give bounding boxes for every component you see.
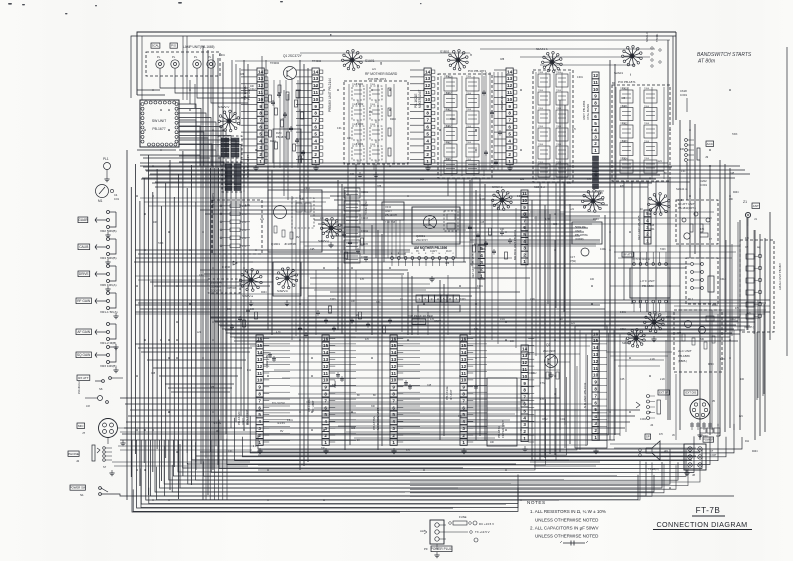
svg-text:UNLESS OTHERWISE NOTED: UNLESS OTHERWISE NOTED xyxy=(535,534,599,539)
wire long mid runs xyxy=(140,165,740,167)
svg-text:68: 68 xyxy=(357,395,360,397)
rotary switch S1A41-b xyxy=(541,52,562,73)
svg-text:6: 6 xyxy=(258,405,261,410)
svg-text:S6: S6 xyxy=(99,387,103,391)
svg-text:tap: tap xyxy=(757,246,761,249)
svg-text:14: 14 xyxy=(522,346,528,351)
svg-text:2: 2 xyxy=(324,433,327,438)
svg-text:PB-1633E: PB-1633E xyxy=(445,386,449,400)
coil row 3 xyxy=(352,126,364,140)
svg-text:h: h xyxy=(470,53,472,57)
svg-text:8: 8 xyxy=(594,100,597,105)
svg-text:11: 11 xyxy=(593,366,598,371)
svg-text:0.01: 0.01 xyxy=(560,418,565,421)
svg-text:VR1-1 5K(A): VR1-1 5K(A) xyxy=(100,310,118,314)
svg-text:C612: C612 xyxy=(531,373,537,375)
svg-text:2: 2 xyxy=(392,433,395,438)
svg-text:T204: T204 xyxy=(466,109,472,111)
svg-text:G: G xyxy=(432,253,434,255)
svg-text:4.7K: 4.7K xyxy=(242,246,247,248)
potentiometer VR6 10K(A) (DRIVE) xyxy=(78,271,90,277)
svg-text:2SC372Y: 2SC372Y xyxy=(416,238,428,242)
svg-text:JF10538: JF10538 xyxy=(284,242,296,246)
svg-text:TX +13.5 V: TX +13.5 V xyxy=(475,530,490,534)
svg-text:11: 11 xyxy=(313,90,318,95)
PA transistor xyxy=(581,248,589,256)
rotary switch S4WV-V xyxy=(218,110,240,132)
wire bus (left vertical bundle) xyxy=(126,150,128,500)
svg-text:4: 4 xyxy=(258,419,261,424)
svg-text:MR BCD UNIT PB-1874: MR BCD UNIT PB-1874 xyxy=(513,230,517,260)
svg-text:1K: 1K xyxy=(400,298,403,301)
svg-text:1: 1 xyxy=(594,435,597,440)
small caps between strips xyxy=(269,352,271,358)
svg-text:TP2001: TP2001 xyxy=(656,33,659,42)
svg-text:4: 4 xyxy=(508,138,511,143)
page edge line right xyxy=(786,47,788,356)
svg-text:14: 14 xyxy=(313,69,319,74)
svg-text:M1: M1 xyxy=(98,199,103,203)
svg-text:10: 10 xyxy=(391,378,397,383)
more mid horizontals short xyxy=(340,225,470,227)
svg-text:2SK19GR-2: 2SK19GR-2 xyxy=(78,380,81,394)
svg-text:J8: J8 xyxy=(692,473,695,477)
svg-text:330: 330 xyxy=(371,406,376,408)
svg-text:10K: 10K xyxy=(500,228,505,231)
small legend symbol xyxy=(563,542,585,544)
svg-text:10K: 10K xyxy=(347,138,352,140)
svg-text:8: 8 xyxy=(523,212,526,217)
svg-text:AT 80m: AT 80m xyxy=(697,59,715,65)
CW peak filter unit PB-1882 xyxy=(416,295,422,302)
stubs right of bottom strips xyxy=(263,338,269,340)
svg-text:T204: T204 xyxy=(370,84,376,86)
svg-text:100: 100 xyxy=(350,173,355,176)
svg-text:0.001: 0.001 xyxy=(700,183,707,187)
POWER connector P8 xyxy=(703,437,714,442)
svg-text:3-8: 3-8 xyxy=(86,404,90,408)
svg-text:1: 1 xyxy=(392,440,395,445)
svg-text:9: 9 xyxy=(523,381,526,386)
svg-text:5: 5 xyxy=(392,412,395,417)
pin row under AM mother xyxy=(391,257,394,260)
svg-text:T204: T204 xyxy=(444,109,450,111)
svg-text:MOD/DEM UNIT: MOD/DEM UNIT xyxy=(376,408,380,430)
svg-text:T204: T204 xyxy=(466,93,472,95)
dashed option box xyxy=(218,136,242,158)
svg-text:4.7K: 4.7K xyxy=(242,222,247,224)
svg-text:10K: 10K xyxy=(153,222,158,224)
svg-text:C612: C612 xyxy=(620,328,626,331)
svg-text:C45: C45 xyxy=(730,173,735,175)
verticals frame to SW unit xyxy=(141,36,143,100)
svg-text:P/O PB-1871: P/O PB-1871 xyxy=(368,77,387,81)
connector MIXER UNIT PB-1621E xyxy=(424,68,431,165)
svg-text:10: 10 xyxy=(593,87,599,92)
svg-text:0.001: 0.001 xyxy=(304,188,310,190)
svg-text:47K: 47K xyxy=(365,339,370,341)
svg-text:X1902: X1902 xyxy=(361,204,369,207)
svg-text:MIC: MIC xyxy=(78,424,84,428)
POWER PLUG boxed label xyxy=(431,546,453,552)
svg-text:T204: T204 xyxy=(352,104,358,106)
svg-text:5: 5 xyxy=(462,412,465,417)
svg-text:CONNECTION DIAGRAM: CONNECTION DIAGRAM xyxy=(656,520,747,529)
svg-text:T204: T204 xyxy=(620,158,626,160)
svg-text:S4WV-a: S4WV-a xyxy=(242,294,253,298)
svg-text:J1: J1 xyxy=(754,217,757,221)
svg-text:5: 5 xyxy=(258,412,261,417)
svg-text:PHONE: PHONE xyxy=(68,452,79,456)
svg-text:X1905: X1905 xyxy=(361,243,369,246)
svg-text:5: 5 xyxy=(324,412,327,417)
coil row 2 xyxy=(352,106,364,120)
svg-text:VR1-2 M(B): VR1-2 M(B) xyxy=(100,341,116,345)
svg-text:UNLESS OTHERWISE NOTED: UNLESS OTHERWISE NOTED xyxy=(535,518,599,523)
pilot lamp PL1 xyxy=(104,163,111,170)
diode D1746 xyxy=(233,261,237,265)
svg-text:ALC UNIT: ALC UNIT xyxy=(678,349,692,353)
svg-text:4: 4 xyxy=(480,253,483,258)
svg-text:P9: P9 xyxy=(424,547,428,551)
svg-text:T204: T204 xyxy=(444,142,450,144)
svg-text:RF GAIN: RF GAIN xyxy=(77,299,91,303)
svg-text:0.047: 0.047 xyxy=(710,454,717,457)
B3000 row xyxy=(700,428,706,433)
rotary switch S4WV-b in box xyxy=(273,262,301,296)
speaker SP xyxy=(645,434,651,439)
svg-text:1K: 1K xyxy=(230,328,233,331)
potentiometer VR2 50K(B) (GUAR) xyxy=(78,217,88,223)
svg-text:0.01: 0.01 xyxy=(500,318,505,321)
svg-text:2: 2 xyxy=(594,428,597,433)
svg-text:47K: 47K xyxy=(599,193,604,195)
svg-text:12: 12 xyxy=(323,364,329,369)
svg-text:RF ATT: RF ATT xyxy=(623,252,632,256)
svg-text:RVO: RVO xyxy=(276,131,282,135)
grounds under strips and parts xyxy=(253,165,258,171)
svg-text:DET UNIT PB-1875: DET UNIT PB-1875 xyxy=(471,253,475,278)
svg-text:C?: C? xyxy=(709,238,713,241)
horizontal band y300-340 xyxy=(135,299,770,301)
svg-text:XTAL BANK: XTAL BANK xyxy=(586,104,590,120)
wire mesh from lamp unit down xyxy=(160,76,248,88)
svg-text:4.7K: 4.7K xyxy=(242,230,247,232)
wire staircase bottom-left xyxy=(132,440,400,512)
svg-text:H: H xyxy=(439,253,441,255)
svg-text:1: 1 xyxy=(418,298,420,302)
svg-text:X1904: X1904 xyxy=(361,230,369,233)
svg-text:T204: T204 xyxy=(556,144,562,146)
svg-text:f: f xyxy=(630,73,631,77)
svg-text:1: 1 xyxy=(462,440,465,445)
svg-text:PB-1878A: PB-1878A xyxy=(372,416,376,430)
svg-text:7.48-7.98: 7.48-7.98 xyxy=(385,221,396,224)
svg-text:C88: C88 xyxy=(351,428,356,430)
svg-text:R204: R204 xyxy=(708,364,714,366)
svg-text:REGISTER UNIT: REGISTER UNIT xyxy=(246,155,250,178)
svg-text:6: 6 xyxy=(594,114,597,119)
svg-text:1K: 1K xyxy=(560,318,563,321)
svg-text:TX +B(V): TX +B(V) xyxy=(648,467,659,471)
svg-text:2.2K: 2.2K xyxy=(660,378,665,381)
nested corner wires center-bottom xyxy=(258,410,535,470)
svg-text:FILTER UNIT: FILTER UNIT xyxy=(501,420,505,438)
svg-text:4: 4 xyxy=(324,419,327,424)
svg-text:T203: T203 xyxy=(450,118,456,121)
svg-text:9: 9 xyxy=(426,104,429,109)
svg-text:13: 13 xyxy=(425,76,431,81)
svg-text:1: 1 xyxy=(258,440,261,445)
svg-text:12: 12 xyxy=(522,360,528,365)
strip PB-1874 right edge of center xyxy=(521,190,528,265)
svg-text:3: 3 xyxy=(314,145,317,150)
svg-text:RX ATT: RX ATT xyxy=(78,376,88,380)
connector AF UNIT PB-1646C xyxy=(322,335,329,445)
svg-text:PL1: PL1 xyxy=(103,157,109,161)
svg-text:7: 7 xyxy=(455,298,457,302)
svg-text:4.7K: 4.7K xyxy=(245,205,250,207)
svg-text:8V: 8V xyxy=(416,250,419,253)
crystal column left xyxy=(533,70,573,182)
rotary switch S2B01 xyxy=(581,190,604,213)
svg-text:330: 330 xyxy=(700,338,705,341)
connector MOD/DEM UNIT PB-1878A xyxy=(390,335,397,445)
svg-text:J2: J2 xyxy=(76,459,80,463)
svg-text:1: 1 xyxy=(480,273,483,278)
svg-text:470: 470 xyxy=(745,238,750,240)
svg-text:NOTES: NOTES xyxy=(527,500,546,505)
rotary switch S2B41 xyxy=(626,328,645,347)
svg-text:1. ALL RESISTORS IN Ω, ¼ W ±: 1. ALL RESISTORS IN Ω, ¼ W ± 10% xyxy=(530,509,606,514)
connector P/O PB-1874 xyxy=(506,68,513,165)
svg-text:(NB05-): (NB05-) xyxy=(678,359,687,363)
svg-text:47K: 47K xyxy=(458,416,463,418)
svg-text:5: 5 xyxy=(523,232,526,237)
svg-text:L21: L21 xyxy=(520,178,525,181)
svg-text:SP: SP xyxy=(646,435,650,439)
svg-text:7: 7 xyxy=(594,107,597,112)
svg-text:T204: T204 xyxy=(466,126,472,128)
PHONE jack J2 xyxy=(68,451,79,456)
svg-text:T204: T204 xyxy=(556,90,562,92)
svg-text:S1: S1 xyxy=(80,493,84,497)
svg-text:C45: C45 xyxy=(716,436,721,438)
power plug P9 xyxy=(430,520,444,544)
svg-text:47K: 47K xyxy=(620,186,625,188)
svg-text:2. ALL CAPACITORS IN µF 50WV: 2. ALL CAPACITORS IN µF 50WV xyxy=(530,526,599,531)
svg-text:C612: C612 xyxy=(542,419,548,421)
svg-text:T204: T204 xyxy=(370,124,376,126)
svg-text:47K: 47K xyxy=(430,318,435,321)
svg-text:11: 11 xyxy=(323,371,328,376)
potentiometer VR1-2 M(B) (AF GAIN) xyxy=(76,329,91,335)
svg-text:15: 15 xyxy=(391,343,397,348)
svg-text:3: 3 xyxy=(480,260,483,265)
svg-text:1K: 1K xyxy=(315,86,318,88)
diagonal-ish jogs upper area xyxy=(179,120,196,166)
middle pockets fill xyxy=(348,240,352,246)
svg-text:0.01: 0.01 xyxy=(253,446,258,448)
wire power run xyxy=(102,494,735,496)
svg-text:9V: 9V xyxy=(216,429,220,433)
svg-text:S4WV-V: S4WV-V xyxy=(218,105,229,109)
rotary switch S1B01-h xyxy=(447,50,468,71)
svg-text:T204: T204 xyxy=(538,144,544,146)
svg-text:R204: R204 xyxy=(261,292,267,294)
svg-text:C45: C45 xyxy=(678,200,683,202)
svg-text:L21: L21 xyxy=(372,69,377,71)
svg-text:4Ω: 4Ω xyxy=(664,449,669,453)
svg-text:AF GAIN: AF GAIN xyxy=(77,330,90,334)
svg-text:T204: T204 xyxy=(466,159,472,161)
svg-text:T204: T204 xyxy=(644,88,650,90)
extra dense verticals xyxy=(291,196,293,340)
svg-text:11: 11 xyxy=(461,371,466,376)
svg-text:PL: PL xyxy=(208,55,212,59)
switch contacts right of S2A01 xyxy=(651,47,653,49)
terminal strip J6 xyxy=(647,395,650,398)
svg-text:7: 7 xyxy=(314,118,317,123)
connector RES CONT UNIT PB-1622C xyxy=(256,335,263,445)
svg-text:C45: C45 xyxy=(151,373,156,375)
svg-text:330: 330 xyxy=(369,112,374,114)
svg-text:BANDSWITCH STARTS: BANDSWITCH STARTS xyxy=(697,52,752,58)
svg-text:C612: C612 xyxy=(720,278,726,281)
svg-text:RL1: RL1 xyxy=(688,297,694,301)
LPF unit PB-1880 xyxy=(630,268,670,298)
svg-text:7: 7 xyxy=(258,398,261,403)
coil row 4 xyxy=(352,146,364,160)
svg-text:0.01: 0.01 xyxy=(228,451,233,453)
svg-text:PL/N: PL/N xyxy=(446,250,452,253)
svg-text:3: 3 xyxy=(594,134,597,139)
right side verticals from ACC/ANT xyxy=(686,162,688,200)
svg-text:C612: C612 xyxy=(730,318,736,321)
svg-text:T204: T204 xyxy=(556,126,562,128)
svg-text:14: 14 xyxy=(257,350,263,355)
svg-text:4: 4 xyxy=(594,414,597,419)
horizontal band y160-190 xyxy=(140,162,668,164)
svg-text:LAMP UNIT(PB-1665): LAMP UNIT(PB-1665) xyxy=(183,45,214,49)
svg-text:11: 11 xyxy=(425,90,430,95)
svg-text:4.7K: 4.7K xyxy=(242,238,247,240)
rotary switch S2A41-m xyxy=(647,193,670,216)
svg-text:9: 9 xyxy=(324,385,327,390)
svg-text:13: 13 xyxy=(391,357,397,362)
svg-text:5: 5 xyxy=(314,131,317,136)
svg-text:10: 10 xyxy=(313,97,319,102)
svg-text:2.2K: 2.2K xyxy=(480,198,485,201)
svg-text:T204: T204 xyxy=(644,123,650,125)
svg-text:R11: R11 xyxy=(745,441,750,443)
connector FIX UNIT PB-1626C xyxy=(257,68,264,165)
svg-text:7: 7 xyxy=(462,398,465,403)
svg-text:5: 5 xyxy=(426,131,429,136)
svg-text:T204: T204 xyxy=(444,126,450,128)
svg-text:T204: T204 xyxy=(556,162,562,164)
svg-text:13: 13 xyxy=(507,76,513,81)
svg-text:2: 2 xyxy=(258,433,261,438)
RX ATT xyxy=(77,375,90,380)
svg-text:R204: R204 xyxy=(733,192,739,194)
resistors in Q1901 box xyxy=(274,226,277,233)
svg-text:S2A01-C: S2A01-C xyxy=(646,32,649,42)
svg-text:C45: C45 xyxy=(427,385,432,387)
svg-text:POWER: POWER xyxy=(703,438,714,442)
VFO unit PB-1402B xyxy=(382,202,404,220)
svg-text:8: 8 xyxy=(426,111,429,116)
svg-text:S4WV-g: S4WV-g xyxy=(318,239,329,243)
AM ALC tails xyxy=(756,332,758,400)
svg-text:3: 3 xyxy=(594,421,597,426)
svg-text:L21: L21 xyxy=(739,416,744,418)
svg-text:3: 3 xyxy=(258,426,261,431)
resistor network near Q1 xyxy=(278,85,281,93)
svg-text:1K: 1K xyxy=(640,208,643,211)
svg-text:9V: 9V xyxy=(280,429,284,433)
svg-text:14: 14 xyxy=(507,69,513,74)
verticals dropping from top arrays to mid xyxy=(347,164,349,196)
svg-text:8: 8 xyxy=(508,111,511,116)
svg-text:PB-1677: PB-1677 xyxy=(152,127,165,131)
svg-text:C4: C4 xyxy=(114,193,118,197)
svg-text:UNIT: UNIT xyxy=(241,418,245,425)
svg-text:5: 5 xyxy=(443,298,445,302)
svg-text:15: 15 xyxy=(257,343,263,348)
svg-text:7: 7 xyxy=(392,398,395,403)
svg-text:3: 3 xyxy=(462,426,465,431)
svg-text:T204: T204 xyxy=(620,106,626,108)
svg-text:10K: 10K xyxy=(680,148,685,151)
svg-text:2.2K: 2.2K xyxy=(650,358,655,361)
svg-text:10: 10 xyxy=(323,378,329,383)
svg-text:L21: L21 xyxy=(420,178,425,181)
svg-text:10: 10 xyxy=(522,198,528,203)
svg-text:/13.5V: /13.5V xyxy=(277,421,285,425)
SW unit PB-1677 xyxy=(140,100,179,147)
rotary switch S1A01-g xyxy=(341,50,362,71)
svg-text:L21: L21 xyxy=(260,218,265,221)
svg-text:4: 4 xyxy=(314,138,317,143)
svg-text:T204: T204 xyxy=(352,84,358,86)
svg-text:6: 6 xyxy=(508,125,511,130)
rotary switch S2C01 xyxy=(643,312,664,333)
top band horizontals y48-68 xyxy=(480,48,655,50)
svg-text:100: 100 xyxy=(740,378,745,381)
wires mixer strip left xyxy=(410,69,424,71)
wires strip P/O PB-1874 left xyxy=(494,69,506,71)
connector PREMIX UNIT PB-2144 xyxy=(312,68,319,165)
svg-text:T204: T204 xyxy=(644,106,650,108)
svg-text:C45: C45 xyxy=(310,248,315,251)
svg-text:T204: T204 xyxy=(466,76,472,78)
svg-text:11: 11 xyxy=(391,371,396,376)
RVO PB-1871 box xyxy=(273,129,301,163)
svg-text:7: 7 xyxy=(508,118,511,123)
svg-text:POWER PLUG: POWER PLUG xyxy=(431,547,453,551)
svg-text:470: 470 xyxy=(572,129,577,131)
right mid verticals x720-760 xyxy=(725,240,727,332)
coil row 1 xyxy=(352,86,364,100)
svg-text:TONE OSC: TONE OSC xyxy=(364,200,368,215)
svg-text:11: 11 xyxy=(593,80,598,85)
svg-text:3: 3 xyxy=(392,426,395,431)
svg-text:J3: J3 xyxy=(705,155,709,159)
svg-text:100: 100 xyxy=(590,278,595,281)
svg-text:5: 5 xyxy=(594,407,597,412)
RF ATT unit (dashed) xyxy=(676,200,718,244)
